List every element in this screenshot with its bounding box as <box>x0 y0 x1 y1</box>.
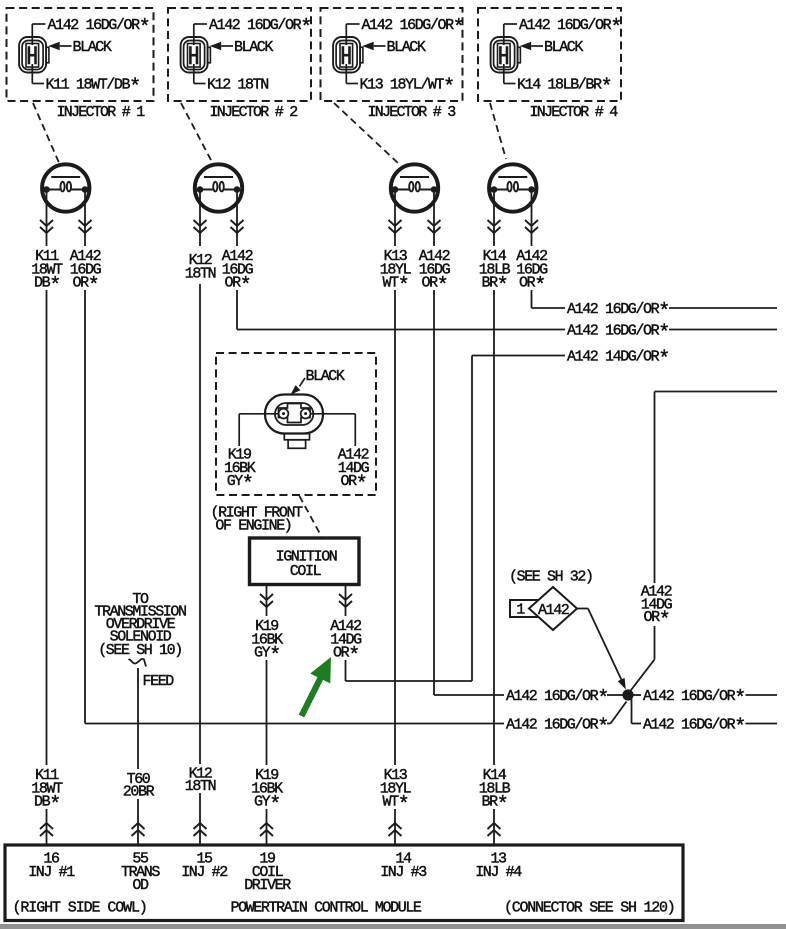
svg-text:A142 16DG/OR*: A142 16DG/OR* <box>48 17 149 40</box>
svg-text:INJECTOR # 1: INJECTOR # 1 <box>56 104 145 121</box>
svg-text:1: 1 <box>516 602 525 619</box>
svg-text:A142 16DG/OR*: A142 16DG/OR* <box>506 717 607 740</box>
svg-text:A142 14DG/OR*: A142 14DG/OR* <box>567 349 668 372</box>
svg-text:K14 18LB/BR*: K14 18LB/BR* <box>517 77 611 100</box>
svg-text:K12 18TN: K12 18TN <box>207 77 268 94</box>
svg-text:OR*: OR* <box>340 473 365 496</box>
svg-text:BLACK: BLACK <box>387 39 426 56</box>
svg-text:A142 16DG/OR*: A142 16DG/OR* <box>567 301 668 324</box>
svg-text:GY*: GY* <box>227 473 252 496</box>
svg-text:BLACK: BLACK <box>234 39 273 56</box>
svg-text:A142: A142 <box>538 602 569 619</box>
svg-text:A142 16DG/OR*: A142 16DG/OR* <box>519 17 620 40</box>
svg-text:OF ENGINE): OF ENGINE) <box>215 518 291 535</box>
svg-text:A142 16DG/OR*: A142 16DG/OR* <box>567 323 668 346</box>
svg-text:INJ #3: INJ #3 <box>380 864 427 881</box>
svg-text:A142 16DG/OR*: A142 16DG/OR* <box>643 717 744 740</box>
svg-text:OR*: OR* <box>643 609 668 632</box>
svg-text:INJ #2: INJ #2 <box>181 864 227 881</box>
svg-text:18TN: 18TN <box>185 266 216 283</box>
svg-text:INJECTOR # 3: INJECTOR # 3 <box>367 104 456 121</box>
svg-text:K13 18YL/WT*: K13 18YL/WT* <box>360 77 454 100</box>
svg-text:INJ #1: INJ #1 <box>28 864 75 881</box>
svg-text:(CONNECTOR SEE SH 120): (CONNECTOR SEE SH 120) <box>504 900 675 917</box>
svg-text:INJECTOR # 2: INJECTOR # 2 <box>209 104 297 121</box>
svg-text:FEED: FEED <box>143 673 175 690</box>
svg-text:INJ #4: INJ #4 <box>475 864 522 881</box>
svg-text:(SEE SH 10): (SEE SH 10) <box>98 642 182 659</box>
svg-text:A142 16DG/OR*: A142 16DG/OR* <box>506 688 607 711</box>
svg-text:COIL: COIL <box>290 563 322 580</box>
svg-text:20BR: 20BR <box>123 784 155 801</box>
svg-text:(SEE SH 32): (SEE SH 32) <box>509 569 593 586</box>
svg-text:OD: OD <box>132 877 149 894</box>
svg-text:BLACK: BLACK <box>73 39 112 56</box>
svg-text:K11 18WT/DB*: K11 18WT/DB* <box>46 77 140 100</box>
svg-text:POWERTRAIN CONTROL MODULE: POWERTRAIN CONTROL MODULE <box>231 900 422 917</box>
svg-text:BLACK: BLACK <box>544 39 583 56</box>
svg-text:18TN: 18TN <box>185 778 216 795</box>
svg-text:INJECTOR # 4: INJECTOR # 4 <box>529 104 618 121</box>
svg-text:(RIGHT SIDE COWL): (RIGHT SIDE COWL) <box>13 900 147 917</box>
svg-text:A142 16DG/OR*: A142 16DG/OR* <box>643 688 744 711</box>
svg-text:DRIVER: DRIVER <box>244 877 291 894</box>
svg-text:BLACK: BLACK <box>306 368 345 385</box>
svg-text:A142 16DG/OR*: A142 16DG/OR* <box>209 17 310 40</box>
svg-text:A142 16DG/OR*: A142 16DG/OR* <box>362 17 463 40</box>
